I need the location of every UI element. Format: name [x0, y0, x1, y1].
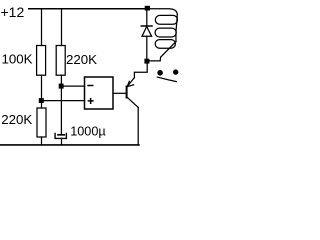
- transistor Q1 emitter diagonal with arrow: [127, 78, 134, 87]
- wire bottom ground rail: [0, 144, 139, 146]
- op-amp U1 plus pin label: [88, 99, 93, 104]
- wire lead C1 bottom: [61, 138, 63, 144]
- wire lead R1 top: [41, 9, 43, 46]
- transistor Q1 base bar: [126, 87, 128, 98]
- transistor Q1 collector diagonal: [127, 97, 138, 107]
- wire diode anode lead: [146, 36, 148, 59]
- wire diode cathode lead: [146, 11, 148, 26]
- diode D1 cathode bar: [141, 25, 152, 27]
- wire noninverting input: [44, 100, 85, 102]
- relay K1 contact dot right: [173, 69, 178, 74]
- wire top +12 rail: [29, 8, 147, 10]
- wire collector down: [137, 107, 139, 144]
- relay K1 switch arm: [157, 77, 176, 82]
- wire lead R2 bottom: [60, 75, 62, 86]
- wire lead R3 bottom: [41, 137, 43, 145]
- wire lead R2 top: [61, 9, 63, 46]
- resistor R2 220K body: [56, 46, 65, 76]
- svg-text:1000µ: 1000µ: [70, 125, 106, 139]
- node divider junction A: [39, 98, 44, 103]
- wire lead C1 top: [60, 89, 62, 135]
- relay K1 contact dot left: [157, 70, 163, 76]
- resistor R3 220K body: [37, 108, 46, 137]
- relay K1 coil right spine: [176, 15, 177, 42]
- node inverting junction B: [59, 84, 64, 89]
- wire R3 lead from junction A: [41, 103, 43, 108]
- diode D1 triangle: [142, 27, 152, 37]
- wire coil bottom lead: [150, 42, 177, 61]
- op-amp U1 minus pin label: [88, 85, 93, 87]
- node coil bottom junction: [144, 59, 149, 64]
- node top junction: [145, 6, 150, 11]
- relay K1 coil loop 1: [155, 15, 177, 24]
- wire lead R1 bottom: [41, 75, 43, 100]
- svg-text:220K: 220K: [66, 52, 97, 67]
- resistor R1 100K body: [37, 46, 46, 76]
- svg-text:220K: 220K: [1, 112, 32, 127]
- op-amp U1 body: [85, 77, 114, 109]
- wire coil top lead: [150, 9, 178, 15]
- svg-text:100K: 100K: [2, 52, 33, 67]
- wire op-amp output to base: [113, 92, 126, 94]
- relay K1 coil loop 2: [155, 28, 176, 37]
- svg-text:+12: +12: [1, 4, 25, 20]
- capacitor C1 top plate: [58, 134, 64, 136]
- wire emitter up: [134, 64, 147, 78]
- wire inverting input: [64, 85, 85, 87]
- relay K1 coil loop 3: [155, 40, 175, 49]
- capacitor C1 cup plate: [55, 133, 66, 138]
